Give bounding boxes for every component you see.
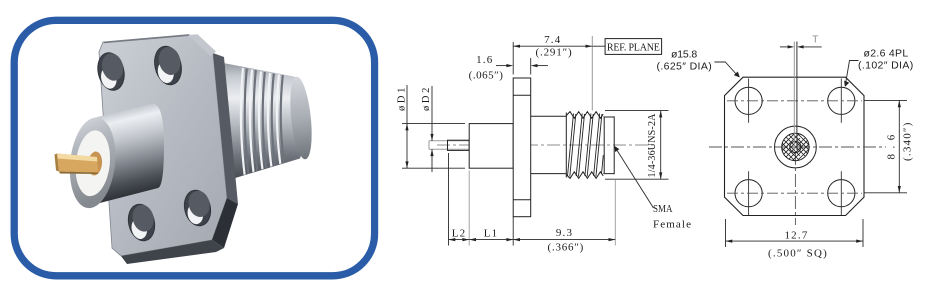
thread crest zigzag bottom bbox=[566, 172, 603, 179]
dielectric body box bbox=[469, 124, 513, 169]
crosshatch bbox=[766, 118, 820, 176]
svg-text:L2: L2 bbox=[452, 227, 467, 239]
svg-text:REF. PLANE: REF. PLANE bbox=[607, 42, 660, 53]
svg-text:(.291″): (.291″) bbox=[536, 46, 573, 58]
hole vertical crosshairs bbox=[749, 79, 842, 216]
contact pin outline bbox=[429, 141, 469, 150]
dimension 12.7 bbox=[726, 219, 864, 247]
hole row centerlines bbox=[727, 101, 862, 193]
SMA Female label with leader bbox=[617, 150, 654, 209]
svg-text:L1: L1 bbox=[484, 227, 499, 239]
photo: PTFE white face bbox=[72, 129, 113, 198]
flange outline (front) bbox=[725, 77, 865, 215]
slot lines (T) bbox=[793, 42, 795, 151]
photo: flange top edge line bbox=[103, 35, 190, 44]
photo: flange side face (right) bbox=[213, 53, 238, 204]
rear barrel (side) bbox=[531, 116, 567, 173]
svg-text:øD1: øD1 bbox=[397, 87, 408, 111]
svg-text:(.366″): (.366″) bbox=[548, 241, 585, 253]
thread start edge bbox=[565, 113, 567, 178]
svg-text:(.340″): (.340″) bbox=[902, 121, 914, 161]
dimension D2 bbox=[431, 86, 433, 172]
svg-text:ø15.8: ø15.8 bbox=[671, 49, 698, 61]
T arrows bbox=[780, 46, 788, 48]
svg-text:Female: Female bbox=[653, 218, 692, 230]
svg-text:T: T bbox=[812, 34, 818, 45]
svg-text:7.4: 7.4 bbox=[544, 34, 561, 46]
flange (side) bbox=[513, 78, 531, 217]
svg-text:SMA: SMA bbox=[653, 203, 673, 215]
centerline bbox=[437, 144, 656, 146]
dimension D1 bbox=[402, 85, 465, 168]
photo: rear threaded barrel bbox=[218, 62, 315, 182]
flange chamfer lines bbox=[513, 95, 531, 200]
dimension L2 / L1 / 9.3 bbox=[449, 239, 616, 241]
svg-text:8.6: 8.6 bbox=[886, 134, 898, 160]
dimension 7.4 bbox=[513, 45, 592, 47]
pin sleeve box bbox=[448, 140, 470, 150]
svg-text:1/4-36UNS-2A: 1/4-36UNS-2A bbox=[647, 113, 658, 178]
svg-text:(.500″ SQ): (.500″ SQ) bbox=[768, 248, 828, 260]
svg-text:ø2.6 4PL: ø2.6 4PL bbox=[864, 48, 910, 60]
thread ridges bbox=[241, 68, 285, 178]
dimension 1/4-36UNS-2A bbox=[605, 111, 669, 180]
thread crest zigzag top bbox=[566, 112, 603, 119]
blue rounded border bbox=[14, 20, 374, 275]
mask outside border corners bbox=[0, 0, 938, 17]
mounting holes (front) bbox=[735, 87, 855, 207]
svg-text:øD2: øD2 bbox=[421, 87, 432, 111]
dimension 1.6 bbox=[496, 42, 548, 75]
svg-text:9.3: 9.3 bbox=[556, 227, 573, 239]
main vertical centerline (below center) bbox=[794, 152, 796, 225]
photo: flange bottom face bbox=[121, 240, 224, 264]
photo: front cylinder body bbox=[55, 103, 165, 210]
photo: flange corner chamfer face (dark) bbox=[212, 198, 238, 248]
photo: flange top-right bevel face bbox=[188, 34, 216, 56]
thread helix hatch bbox=[568, 114, 604, 177]
photo: barrel end cap bbox=[287, 76, 315, 161]
svg-text:12.7: 12.7 bbox=[784, 230, 808, 242]
dimension 8.6 bbox=[865, 100, 908, 192]
thread end band bbox=[603, 116, 614, 174]
ref plane extension line bbox=[591, 36, 593, 111]
svg-text:(.102″ DIA): (.102″ DIA) bbox=[858, 59, 914, 71]
main horizontal centerline bbox=[709, 146, 886, 148]
bottom extension lines bbox=[449, 153, 616, 246]
REF. PLANE box bbox=[592, 45, 605, 47]
svg-text:(.625″ DIA): (.625″ DIA) bbox=[657, 60, 713, 72]
svg-text:1.6: 1.6 bbox=[476, 54, 493, 66]
photo: flange plate front face bbox=[99, 34, 238, 264]
center connector circles bbox=[775, 126, 817, 168]
center small circle bbox=[790, 141, 801, 152]
photo: front face outer rim bbox=[66, 115, 120, 210]
photo: flange mounting holes bbox=[94, 44, 214, 244]
svg-text:(.065″): (.065″) bbox=[469, 69, 505, 81]
photo: gold center pin bbox=[87, 151, 103, 176]
